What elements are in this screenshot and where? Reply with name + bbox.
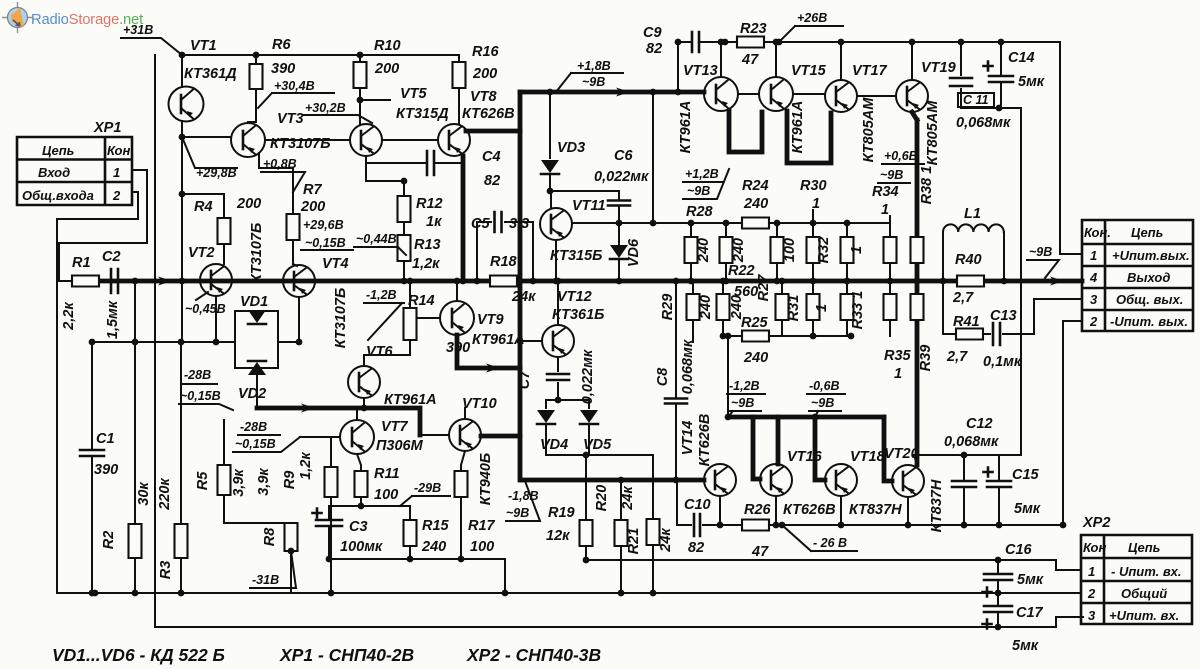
svg-text:ХР2 - СНП40-3В: ХР2 - СНП40-3В — [466, 645, 601, 665]
svg-text:R7: R7 — [303, 182, 322, 198]
svg-text:VT18: VT18 — [850, 449, 886, 465]
transistor VT1 — [181, 55, 183, 137]
svg-text:1,2к: 1,2к — [412, 256, 440, 272]
svg-text:1,2к: 1,2к — [298, 452, 314, 480]
drop to VT16 collector — [776, 417, 781, 464]
wire VT9 emitter thick — [457, 335, 520, 368]
svg-text:3,9к: 3,9к — [256, 468, 272, 496]
svg-text:VD6: VD6 — [626, 238, 642, 267]
svg-text:R10: R10 — [374, 38, 401, 54]
wire VT3-VT5 base — [265, 139, 350, 141]
transistor VT20 — [892, 465, 924, 497]
svg-text:Кон: Кон — [1083, 540, 1106, 555]
label +29.8V — [182, 137, 237, 168]
resistor column x782 lower R27 — [781, 281, 783, 294]
wire VT6 emitter — [363, 398, 365, 408]
bus arrows — [158, 277, 172, 286]
svg-text:-29В: -29В — [414, 481, 441, 495]
svg-text:R41: R41 — [953, 314, 980, 330]
diodes VD4 VD5 — [546, 399, 589, 401]
wire VT8 collector thick — [466, 129, 520, 134]
node C2-R2 — [132, 278, 139, 285]
capacitor C8 — [675, 281, 677, 480]
wire XP1 pin2 ground — [57, 192, 138, 593]
wire C12 C15 top link — [914, 455, 1021, 465]
svg-text:R11: R11 — [374, 466, 400, 482]
svg-text:240: 240 — [698, 295, 714, 320]
resistor R8 — [285, 523, 298, 551]
svg-text:+1,8В: +1,8В — [577, 59, 611, 73]
svg-text:1: 1 — [1090, 248, 1097, 263]
svg-text:3: 3 — [1088, 608, 1096, 623]
transistor VT9 — [417, 317, 440, 319]
resistor R1 — [72, 276, 99, 287]
svg-text:Кон: Кон — [107, 143, 130, 158]
resistor R21 — [652, 455, 654, 519]
wire -U line to C16 — [586, 560, 1081, 570]
resistor R20 — [620, 480, 622, 520]
svg-text:+31В: +31В — [123, 23, 153, 37]
svg-text:КТ3107Б: КТ3107Б — [249, 223, 265, 283]
svg-text:R28: R28 — [686, 204, 714, 220]
svg-text:КТ315Б: КТ315Б — [550, 248, 602, 264]
svg-text:1к: 1к — [426, 214, 442, 230]
capacitor C16 — [997, 560, 999, 593]
ground rail bottom — [57, 592, 1081, 594]
svg-text:~0,45В: ~0,45В — [185, 302, 226, 316]
svg-text:КТ626В: КТ626В — [697, 414, 713, 467]
svg-text:-1,2В: -1,2В — [729, 379, 760, 393]
svg-text:47: 47 — [741, 52, 759, 68]
node VT5 collector — [360, 99, 390, 101]
svg-text:Общий: Общий — [1121, 586, 1167, 601]
resistor R5 — [223, 420, 225, 465]
transistor VT18 — [825, 464, 857, 496]
svg-text:R21: R21 — [626, 528, 642, 555]
svg-text:VT15: VT15 — [791, 63, 827, 79]
svg-text:200: 200 — [300, 199, 325, 215]
resistor R17 — [461, 451, 465, 471]
thick emitter link VT15 — [787, 111, 831, 163]
wire +31V top rail — [182, 54, 459, 56]
svg-text:1: 1 — [1088, 564, 1095, 579]
svg-text:R33 1: R33 1 — [850, 291, 866, 330]
svg-text:С12: С12 — [966, 416, 993, 432]
svg-text:VT9: VT9 — [477, 312, 504, 328]
svg-text:КТ805АМ: КТ805АМ — [925, 100, 941, 166]
svg-text:24к: 24к — [658, 528, 674, 553]
svg-text:VT14: VT14 — [680, 421, 696, 456]
svg-text:R40: R40 — [955, 252, 982, 268]
svg-text:1: 1 — [849, 246, 865, 254]
transistor VT14 — [704, 464, 736, 496]
wire XP1 pin1 to R1 — [59, 170, 147, 281]
resistor R10 — [354, 62, 367, 88]
svg-text:КТ361Б: КТ361Б — [552, 307, 604, 323]
capacitor C2 — [111, 269, 118, 293]
svg-text:-28В: -28В — [184, 368, 211, 382]
svg-text:24к: 24к — [620, 486, 636, 511]
svg-text:R24: R24 — [742, 178, 769, 194]
svg-text:С10: С10 — [684, 497, 711, 513]
svg-text:~9В: ~9В — [811, 396, 834, 410]
wire VT2 emitter down — [215, 296, 217, 342]
svg-text:R8: R8 — [262, 527, 278, 546]
svg-text:КТ961А: КТ961А — [678, 101, 694, 154]
wire emitter bottom row — [329, 559, 505, 593]
resistor column x777 upper — [776, 223, 778, 237]
svg-text:R2: R2 — [101, 531, 117, 550]
svg-text:82: 82 — [646, 41, 662, 57]
svg-text:C4: C4 — [482, 149, 501, 165]
resistor column x847 upper — [846, 223, 848, 237]
transistor VT19 — [896, 80, 928, 112]
svg-text:C13: C13 — [990, 308, 1017, 324]
capacitor C4 — [366, 162, 463, 164]
svg-text:R20: R20 — [594, 485, 610, 512]
svg-text:С3: С3 — [349, 519, 368, 535]
svg-text:~0,44В: ~0,44В — [356, 232, 397, 246]
capacitor C12 — [963, 455, 965, 525]
svg-text:С8: С8 — [655, 367, 671, 386]
capacitor C13 — [983, 299, 1082, 334]
resistor R14 — [409, 281, 411, 308]
svg-text:Общ.входа: Общ.входа — [22, 188, 94, 203]
svg-text:2,7: 2,7 — [946, 349, 968, 365]
svg-text:-0,6В: -0,6В — [809, 379, 840, 393]
svg-text:VT13: VT13 — [683, 63, 718, 79]
capacitor C14 — [1000, 42, 1002, 108]
svg-text:Цепь: Цепь — [1131, 225, 1163, 240]
svg-text:VT11: VT11 — [572, 198, 606, 214]
svg-text:+30,2В: +30,2В — [305, 101, 346, 115]
wire VT5-VT8 base — [382, 139, 438, 141]
svg-text:3,9к: 3,9к — [231, 469, 247, 497]
connector table XP1 output side — [1082, 220, 1193, 331]
svg-text:~0,15В: ~0,15В — [180, 389, 221, 403]
svg-text:R22: R22 — [728, 263, 755, 279]
svg-text:1,5мк: 1,5мк — [105, 300, 121, 339]
wire x653 from drive to row — [652, 92, 654, 223]
svg-text:R29: R29 — [660, 294, 676, 321]
svg-text:КТ940Б: КТ940Б — [478, 453, 494, 505]
svg-text:+30,4В: +30,4В — [274, 79, 315, 93]
svg-text:R30: R30 — [800, 178, 827, 194]
svg-text:2: 2 — [1089, 314, 1098, 329]
svg-text:100: 100 — [782, 238, 798, 262]
resistor R41 Zobel — [943, 281, 956, 334]
svg-text:R16: R16 — [472, 44, 500, 60]
svg-text:- Uпит. вх.: - Uпит. вх. — [1111, 564, 1182, 579]
svg-text:Выход: Выход — [1127, 270, 1170, 285]
transistor VT16 — [760, 464, 792, 496]
thick drop to VT20 — [884, 417, 892, 481]
wire XP2 row2 — [1060, 522, 1067, 529]
wire R7 to VT4 — [293, 264, 297, 266]
svg-text:100: 100 — [374, 487, 398, 503]
svg-text:ХР1 - СНП40-2В: ХР1 - СНП40-2В — [279, 645, 414, 665]
svg-text:+1,2В: +1,2В — [685, 167, 719, 181]
wire +26V rail — [678, 42, 1082, 254]
resistor column x723 lower — [722, 281, 724, 294]
svg-text:КТ961А: КТ961А — [472, 332, 525, 348]
capacitor C9 — [692, 32, 699, 52]
thick drive wire to VT13 — [520, 90, 704, 95]
capacitor C17 — [997, 593, 999, 627]
inductor L1 — [943, 232, 1004, 281]
resistor R4 — [182, 194, 224, 218]
capacitor C3 — [328, 506, 330, 559]
svg-text:+26В: +26В — [797, 11, 827, 25]
transistor VT6 — [348, 366, 380, 398]
svg-text:3: 3 — [1090, 292, 1098, 307]
svg-text:VT5: VT5 — [400, 86, 428, 102]
thick vertical VT8 to lower — [518, 92, 523, 480]
transistor VT17 — [825, 80, 857, 112]
wire C11 C14 common down — [961, 108, 1021, 455]
svg-text:C2: C2 — [102, 249, 121, 265]
wire VT13-VT15 base links — [738, 94, 896, 96]
svg-text:C14: C14 — [1008, 50, 1035, 66]
svg-text:Цепь: Цепь — [42, 143, 74, 158]
svg-text:390: 390 — [271, 61, 295, 77]
resistor R26 — [742, 520, 769, 531]
resistor R29 — [692, 281, 694, 294]
resistors R12 R13 chain — [366, 156, 404, 196]
wire VT4 emitter down — [298, 297, 300, 342]
wire R14 to VT6 — [364, 340, 410, 366]
wire base line feed — [727, 336, 729, 417]
svg-text:XP2: XP2 — [1082, 515, 1110, 531]
svg-text:1: 1 — [881, 202, 889, 218]
svg-text:Цепь: Цепь — [1128, 540, 1160, 555]
wire VT1 to VT3 — [182, 136, 231, 138]
svg-text:~9В: ~9В — [880, 168, 903, 182]
svg-text:КТ626В: КТ626В — [462, 106, 515, 122]
svg-text:240: 240 — [421, 539, 446, 555]
svg-text:1: 1 — [113, 165, 120, 180]
transistor VT3 — [231, 123, 265, 157]
svg-text:Вход: Вход — [38, 165, 70, 180]
svg-text:1: 1 — [894, 366, 902, 382]
diode bridge VD1 — [92, 311, 278, 368]
svg-text:R1: R1 — [72, 255, 91, 271]
wire VD bottom row — [546, 454, 653, 456]
svg-text:П306М: П306М — [376, 438, 424, 454]
label R24 — [742, 218, 769, 229]
svg-text:КТ626В: КТ626В — [783, 502, 836, 518]
svg-text:560: 560 — [734, 284, 758, 300]
capacitor C5 with R18 — [477, 222, 533, 281]
svg-text:-Uпит. вых.: -Uпит. вых. — [1110, 314, 1188, 329]
svg-text:~9В: ~9В — [1029, 245, 1052, 259]
svg-text:VT3: VT3 — [277, 111, 304, 127]
resistor column x847 lower — [846, 281, 848, 294]
svg-text:+Uпит. вх.: +Uпит. вх. — [1109, 608, 1179, 623]
diode VD6 — [610, 245, 628, 258]
svg-text:С 11: С 11 — [963, 93, 989, 107]
RadioStorage.net logo icon — [2, 2, 33, 33]
wire bridge to VT4 — [278, 341, 299, 343]
svg-text:100: 100 — [470, 539, 494, 555]
resistor R11 — [357, 454, 361, 471]
wire to R1 — [59, 280, 72, 282]
svg-text:5мк: 5мк — [1017, 572, 1044, 588]
svg-text:VT8: VT8 — [470, 89, 498, 105]
bottom output row — [677, 321, 1082, 525]
svg-text:VD1: VD1 — [240, 294, 268, 310]
svg-text:~9В: ~9В — [582, 75, 605, 89]
transistor VT12 — [520, 340, 542, 342]
svg-text:0,022мк: 0,022мк — [594, 169, 649, 185]
svg-text:2: 2 — [112, 188, 121, 203]
svg-text:~0,15В: ~0,15В — [305, 236, 346, 250]
svg-text:R14: R14 — [408, 293, 435, 309]
svg-text:C9: C9 — [643, 25, 662, 41]
svg-text:1: 1 — [814, 304, 830, 312]
svg-text:Общ. вых.: Общ. вых. — [1116, 292, 1183, 307]
svg-text:12к: 12к — [546, 528, 570, 544]
wire VT8 emitter thick — [461, 156, 466, 281]
svg-text:Кон.: Кон. — [1084, 225, 1111, 240]
svg-text:С1: С1 — [96, 431, 115, 447]
svg-text:- 26 В: - 26 В — [813, 536, 847, 550]
svg-text:С7: С7 — [517, 370, 533, 389]
svg-text:XP1: XP1 — [93, 120, 121, 136]
svg-text:КТ837Н: КТ837Н — [849, 502, 902, 518]
svg-text:82: 82 — [688, 540, 704, 556]
svg-text:100мк: 100мк — [340, 539, 383, 555]
svg-text:0,068мк: 0,068мк — [956, 115, 1011, 131]
svg-text:5мк: 5мк — [1014, 501, 1041, 517]
svg-text:С17: С17 — [1016, 605, 1044, 621]
diode VD3 — [549, 92, 551, 158]
svg-text:КТ805АМ: КТ805АМ — [861, 97, 877, 163]
main signal bus — [102, 279, 1082, 284]
resistor R9 — [330, 437, 332, 467]
capacitor C10 — [694, 514, 700, 536]
svg-text:VT7: VT7 — [381, 419, 409, 435]
svg-text:C6: C6 — [614, 148, 633, 164]
wire VT9 collector — [456, 281, 458, 301]
wire mid row y223 — [572, 222, 890, 224]
svg-text:VD3: VD3 — [557, 140, 585, 156]
transistor VT8 — [438, 124, 470, 156]
svg-text:С16: С16 — [1005, 542, 1033, 558]
svg-text:~9В: ~9В — [506, 506, 529, 520]
svg-text:0,068мк: 0,068мк — [944, 434, 999, 450]
svg-text:R31: R31 — [786, 295, 802, 322]
svg-text:C5: C5 — [471, 216, 490, 232]
thick wire lower drive — [257, 408, 420, 435]
resistor R28 — [690, 223, 692, 237]
resistor R6 — [250, 64, 263, 89]
svg-text:VT6: VT6 — [366, 344, 394, 360]
wire bottom to XP2 pin3 — [155, 617, 1083, 627]
resistor R18 in bus — [490, 276, 517, 287]
svg-text:2: 2 — [1087, 586, 1096, 601]
svg-text:VT12: VT12 — [557, 289, 592, 305]
svg-text:~9В: ~9В — [687, 184, 710, 198]
svg-text:R12: R12 — [416, 196, 443, 212]
resistor R40 in bus — [957, 276, 984, 287]
svg-text:R17: R17 — [468, 518, 496, 534]
svg-text:R32: R32 — [816, 237, 832, 264]
svg-text:R9: R9 — [282, 471, 298, 490]
thick base line y417 — [728, 415, 884, 420]
transistor VT5 — [350, 124, 382, 156]
svg-text:82: 82 — [484, 173, 500, 189]
wire emitter row — [329, 505, 410, 507]
transistor VT7 — [300, 436, 340, 438]
svg-text:30к: 30к — [136, 482, 152, 506]
svg-text:+Uпит.вых.: +Uпит.вых. — [1112, 248, 1190, 263]
wire VT1 collector down — [181, 137, 183, 342]
svg-text:~0,15В: ~0,15В — [235, 437, 276, 451]
capacitor C7 — [557, 357, 559, 400]
svg-text:~9В: ~9В — [731, 396, 754, 410]
resistor column x813 lower R31 — [812, 281, 814, 294]
svg-text:R18: R18 — [490, 254, 518, 270]
svg-text:0,022мк: 0,022мк — [580, 349, 596, 404]
svg-text:0,1мк: 0,1мк — [983, 354, 1022, 370]
svg-text:240: 240 — [731, 238, 747, 263]
resistor column x813 upper R32 — [812, 223, 814, 237]
svg-text:КТ361Д: КТ361Д — [184, 66, 237, 82]
resistor R7 — [259, 153, 293, 214]
svg-text:24к: 24к — [511, 289, 536, 305]
thick drop to VT18 — [815, 417, 825, 480]
resistor R3 — [180, 342, 182, 524]
thick VT19 emitter down — [912, 112, 917, 465]
svg-text:VD4: VD4 — [540, 437, 568, 453]
svg-text:2,2к: 2,2к — [61, 302, 77, 331]
svg-text:R34: R34 — [872, 184, 899, 200]
resistor R25 — [742, 331, 769, 342]
svg-text:200: 200 — [472, 66, 497, 82]
svg-text:240: 240 — [743, 350, 768, 366]
svg-text:+29,8В: +29,8В — [196, 166, 237, 180]
svg-text:R5: R5 — [195, 471, 211, 490]
resistor R15 — [409, 506, 411, 520]
svg-text:R26: R26 — [744, 502, 772, 518]
svg-text:R19: R19 — [548, 505, 575, 521]
svg-text:VT10: VT10 — [462, 396, 497, 412]
capacitor C6 — [550, 191, 619, 223]
diode VD2 — [248, 362, 266, 375]
svg-text:R6: R6 — [272, 37, 291, 53]
svg-text:4: 4 — [1089, 270, 1098, 285]
svg-text:R27: R27 — [756, 274, 772, 302]
svg-text:КТ315Д: КТ315Д — [396, 106, 449, 122]
svg-text:VT16: VT16 — [787, 449, 823, 465]
svg-text:240: 240 — [696, 238, 712, 263]
svg-text:-1,8В: -1,8В — [508, 489, 539, 503]
transistor VT11 — [550, 191, 552, 208]
svg-text:R23: R23 — [740, 21, 767, 37]
transistor VT2 — [200, 264, 232, 296]
svg-text:VT17: VT17 — [852, 63, 888, 79]
svg-text:VD5: VD5 — [583, 437, 612, 453]
svg-text:VD2: VD2 — [238, 386, 266, 402]
svg-text:-1,2В: -1,2В — [366, 288, 397, 302]
svg-text:5мк: 5мк — [1018, 74, 1045, 90]
thick VT10 emitter to rail — [481, 434, 520, 439]
svg-text:-31В: -31В — [252, 573, 279, 587]
svg-text:0,068мк: 0,068мк — [680, 339, 696, 394]
svg-text:R3: R3 — [158, 561, 174, 580]
transistor VT13 — [704, 77, 738, 111]
